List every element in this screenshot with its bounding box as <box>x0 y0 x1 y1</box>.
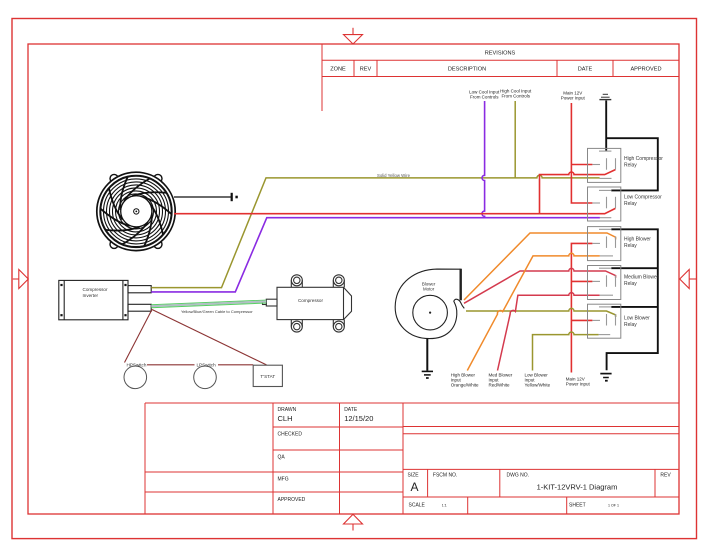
ground: main input (top, inverted) <box>599 94 611 99</box>
svg-text:QA: QA <box>278 455 286 461</box>
svg-text:APPROVED: APPROVED <box>630 67 661 73</box>
svg-text:MFG: MFG <box>278 477 289 483</box>
relay K2 Low Compressor Relay <box>588 187 621 221</box>
svg-text:A: A <box>411 480 419 494</box>
svg-text:SIZE: SIZE <box>408 473 420 479</box>
svg-text:FSCM NO.: FSCM NO. <box>433 473 457 479</box>
relay K1 High Compressor Relay <box>588 148 621 182</box>
relay K2 label <box>624 195 662 208</box>
svg-text:High Blower: High Blower <box>624 237 651 243</box>
wire: olive Low Blower Input from label to relay coil <box>533 332 599 371</box>
svg-text:Motor: Motor <box>423 287 435 292</box>
fan M1 (condenser fan with grille) <box>97 172 175 250</box>
node label: Main 12V Power Input (bottom) <box>566 377 591 387</box>
svg-text:Orange/White: Orange/White <box>451 383 479 388</box>
svg-text:Inverter: Inverter <box>83 293 99 298</box>
svg-text:LPSwitch: LPSwitch <box>197 363 217 368</box>
svg-text:T'STAT: T'STAT <box>260 374 275 379</box>
svg-text:Relay: Relay <box>624 201 637 207</box>
wire: fan black lead to connector <box>174 193 238 201</box>
wire: crimson blower med-speed feed to Medium Blower Relay <box>464 268 616 303</box>
svg-text:High Compressor: High Compressor <box>624 156 663 162</box>
svg-text:Low Compressor: Low Compressor <box>624 195 662 201</box>
svg-text:DRAWN: DRAWN <box>278 407 297 413</box>
svg-text:HPSwitch: HPSwitch <box>127 363 147 368</box>
svg-text:Power Input: Power Input <box>566 382 591 387</box>
bottom centering mark <box>344 514 363 530</box>
svg-text:Relay: Relay <box>624 163 637 169</box>
svg-text:CHECKED: CHECKED <box>278 432 303 438</box>
blower motor label <box>422 281 436 291</box>
node label: High Cool Input From Controls <box>500 88 532 98</box>
svg-text:Relay: Relay <box>624 243 637 249</box>
svg-text:Relay: Relay <box>624 281 637 287</box>
title block text <box>278 407 672 509</box>
node label: Med Blower Input Red/White <box>489 373 513 388</box>
cable: yellow/blue/green to compressor <box>151 300 266 308</box>
net label: Solid Yellow Wire <box>377 173 411 178</box>
ground: blower relay bus (bottom right) <box>600 374 611 381</box>
revisions table <box>322 44 679 111</box>
svg-text:Low Blower: Low Blower <box>624 316 650 322</box>
svg-text:REVISIONS: REVISIONS <box>485 51 516 57</box>
svg-text:Relay: Relay <box>624 322 637 328</box>
svg-text:Medium Blower: Medium Blower <box>624 275 659 281</box>
svg-text:1-KIT-12VRV-1 Diagram: 1-KIT-12VRV-1 Diagram <box>537 483 618 492</box>
right centering mark <box>680 270 696 289</box>
svg-text:DWG NO.: DWG NO. <box>507 473 530 479</box>
svg-text:Red/White: Red/White <box>489 383 511 388</box>
wire: solid yellow (high cool) from inverter to High Compressor Relay <box>151 175 599 287</box>
svg-text:Solid Yellow Wire: Solid Yellow Wire <box>377 173 411 178</box>
svg-text:1:1: 1:1 <box>442 504 447 508</box>
top centering mark <box>344 28 363 44</box>
svg-text:Compressor: Compressor <box>298 298 323 303</box>
node label: High Blower Input Orange/White <box>451 373 479 388</box>
svg-text:12/15/20: 12/15/20 <box>344 414 373 423</box>
wire: black ground bus for blower relays <box>607 229 658 370</box>
svg-text:Power Input: Power Input <box>561 95 586 100</box>
title block lines <box>145 403 679 514</box>
wire: maroon HPSwitch to LPSwitch <box>147 364 195 366</box>
relay K5 label <box>624 316 650 329</box>
svg-text:ZONE: ZONE <box>330 67 346 73</box>
svg-text:From Controls: From Controls <box>470 94 499 99</box>
svg-text:From Controls: From Controls <box>501 93 530 98</box>
svg-text:Yellow/White: Yellow/White <box>525 383 551 388</box>
svg-text:REV: REV <box>360 67 372 73</box>
wire: olive blower low-speed feed to Low Blower Relay <box>466 308 616 317</box>
svg-text:DESCRIPTION: DESCRIPTION <box>448 67 486 73</box>
compressor label <box>298 298 323 303</box>
wire: orange High Blower Input from label to relay coil <box>467 253 600 370</box>
wire: maroon LPSwitch to T'STAT <box>218 364 253 366</box>
switch HPSwitch <box>124 363 147 389</box>
svg-text:Compressor: Compressor <box>83 287 108 292</box>
wire: blower ground stem <box>426 339 428 371</box>
svg-text:DATE: DATE <box>578 67 593 73</box>
wire: maroon inverter to T'STAT <box>152 310 267 365</box>
revisions table text <box>330 51 661 73</box>
relay K4 label <box>624 275 659 288</box>
svg-text:SCALE: SCALE <box>409 503 426 509</box>
wire: maroon inverter to HPSwitch <box>125 310 153 363</box>
node label: Main 12V Power Input (top) <box>561 90 586 100</box>
wire: crimson Med Blower Input from label to relay coil <box>498 293 600 371</box>
svg-text:CLH: CLH <box>278 414 293 423</box>
wire: black ground bus for compressor relays <box>606 101 658 191</box>
wire: red from fan to compressor relays (switch commons) <box>174 170 615 214</box>
compressor CP1 <box>263 275 352 332</box>
relay K1 label <box>624 156 663 169</box>
svg-text:1 OF 1: 1 OF 1 <box>608 504 619 508</box>
svg-text:SHEET: SHEET <box>569 503 586 509</box>
wire: main 12V power vertical with branches to relay coils <box>571 103 592 373</box>
blower motor B1 (scroll housing) <box>395 269 464 339</box>
wire: purple drop from Low Cool Input label <box>482 101 485 218</box>
compressor inverter U1 <box>59 280 151 319</box>
node label: Low Blower Input Yellow/White <box>525 373 551 388</box>
svg-text:APPROVED: APPROVED <box>278 497 306 503</box>
switch LPSwitch <box>194 363 217 389</box>
ground: blower motor <box>422 371 433 378</box>
relay K4 Medium Blower Relay <box>588 266 621 300</box>
svg-text:REV: REV <box>660 473 671 479</box>
relay K5 Low Blower Relay <box>588 304 621 338</box>
thermostat T'STAT <box>253 365 282 386</box>
wire: low cool purple from inverter to Low Compressor Relay <box>151 218 600 292</box>
wire: orange blower high-speed feed to High Blower Relay <box>464 233 616 300</box>
cable label <box>181 309 253 314</box>
svg-text:Yellow/Blue/Green Cable to Com: Yellow/Blue/Green Cable to Compressor <box>181 309 253 314</box>
svg-text:DATE: DATE <box>344 407 358 413</box>
sheet inner border frame <box>28 44 679 514</box>
relay K3 High Blower Relay <box>588 227 621 261</box>
compressor inverter label <box>83 287 108 298</box>
node label: Low Cool Input From Controls <box>469 89 500 99</box>
relay K3 label <box>624 237 651 250</box>
left centering mark <box>13 270 28 289</box>
wire: olive drop from High Cool Input label <box>514 101 516 178</box>
